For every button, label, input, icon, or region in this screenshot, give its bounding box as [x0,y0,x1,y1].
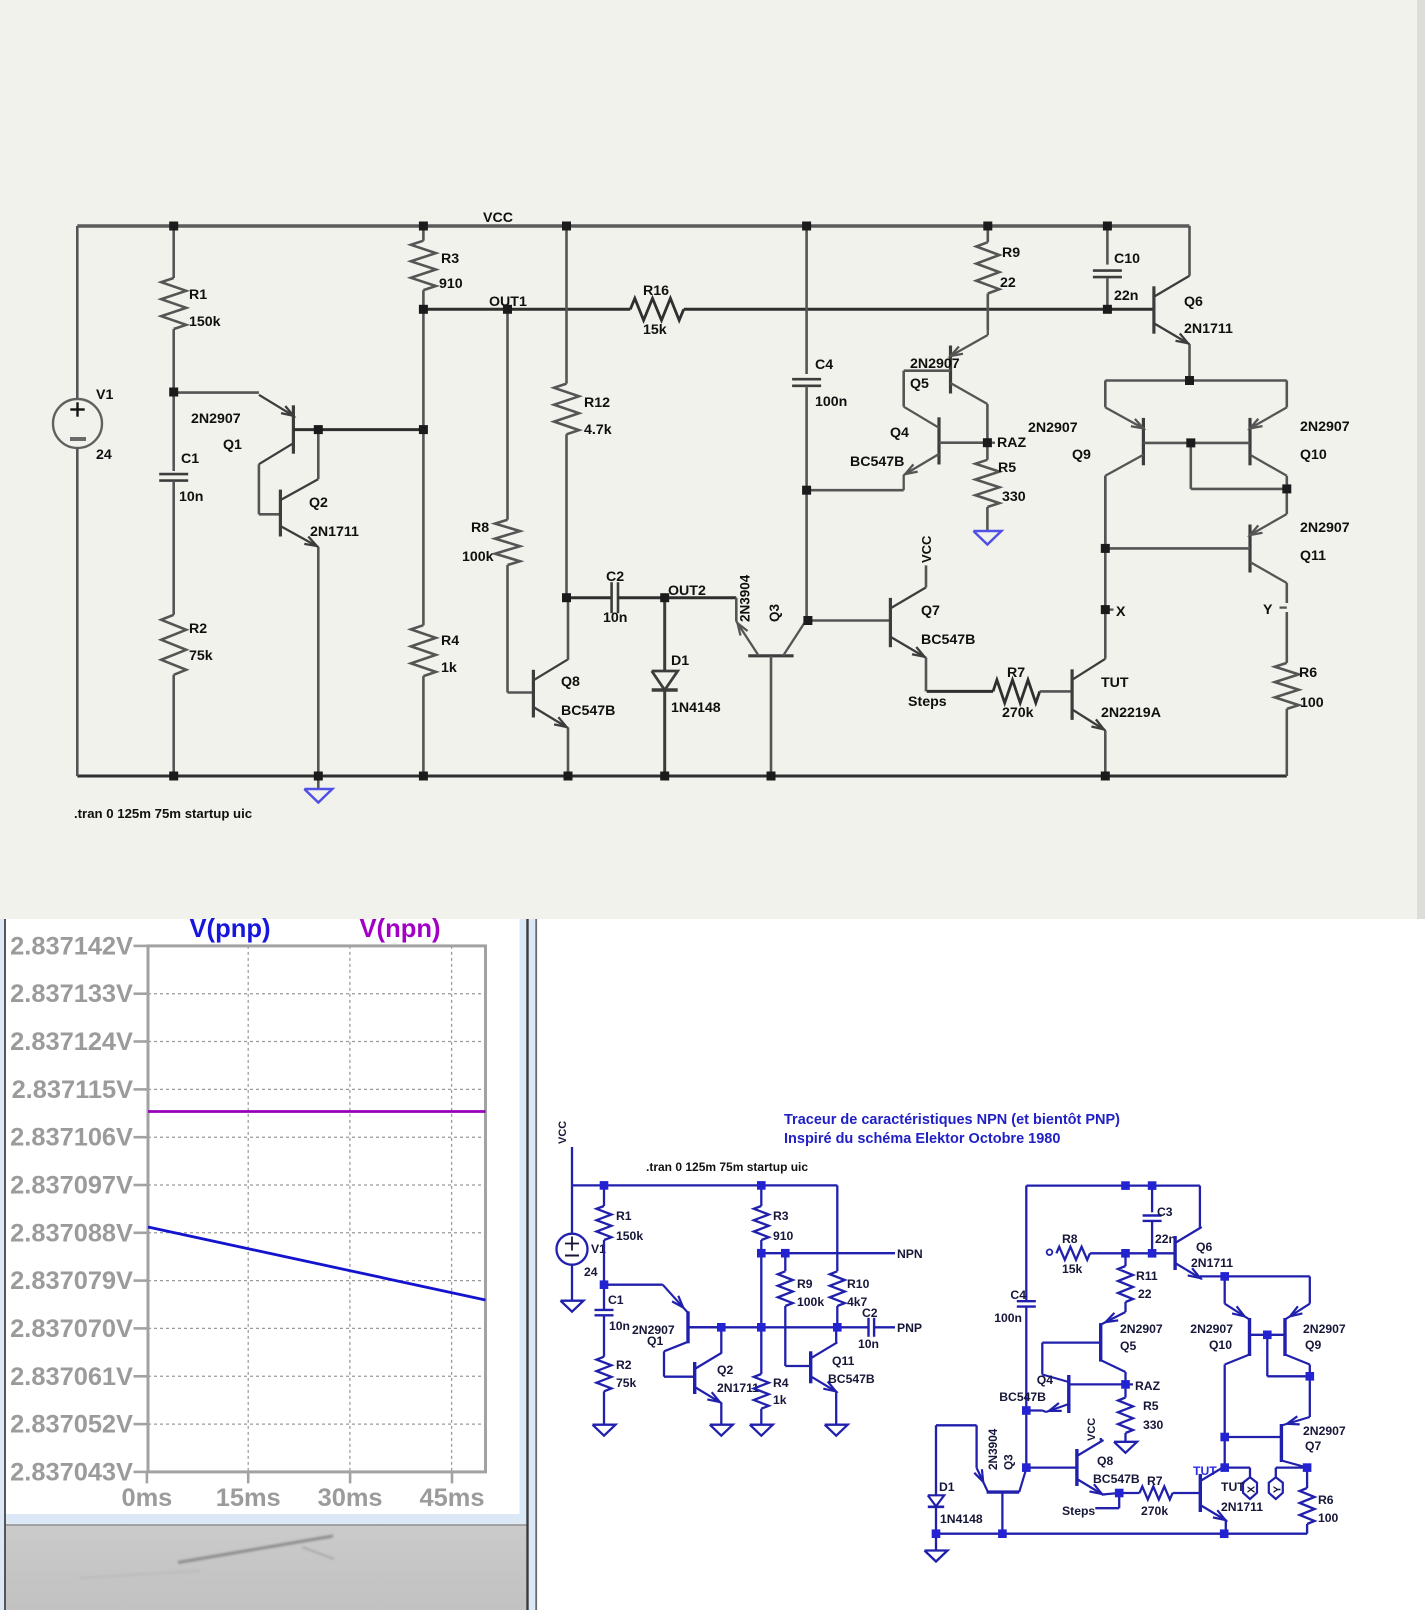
svg-text:100k: 100k [462,549,494,565]
svg-text:BC547B: BC547B [561,703,615,719]
svg-text:V1: V1 [96,387,113,403]
svg-text:BC547B: BC547B [850,454,904,470]
svg-text:4.7k: 4.7k [584,422,612,438]
svg-text:VCC: VCC [919,535,934,563]
svg-text:10n: 10n [609,1319,630,1333]
svg-text:Q9: Q9 [1072,447,1091,463]
svg-text:VCC: VCC [483,210,513,226]
svg-text:2.837133V: 2.837133V [10,980,133,1008]
svg-text:R7: R7 [1147,1474,1163,1488]
svg-text:330: 330 [1002,489,1026,505]
svg-text:Q7: Q7 [1305,1439,1321,1453]
svg-text:Q2: Q2 [717,1363,733,1377]
svg-text:24: 24 [584,1265,598,1279]
svg-text:150k: 150k [189,314,221,330]
svg-text:100: 100 [1318,1511,1339,1525]
svg-text:C1: C1 [608,1293,624,1307]
svg-text:R5: R5 [998,460,1016,476]
svg-text:10n: 10n [603,610,627,626]
svg-text:2.837115V: 2.837115V [12,1076,134,1104]
svg-text:100: 100 [1300,695,1324,711]
svg-text:10n: 10n [179,489,203,505]
svg-text:Q11: Q11 [1300,548,1326,564]
svg-text:1N4148: 1N4148 [671,700,721,716]
svg-text:1k: 1k [441,660,457,676]
svg-text:Steps: Steps [1062,1504,1095,1518]
svg-text:BC547B: BC547B [1093,1472,1140,1486]
svg-text:R1: R1 [189,287,207,303]
svg-text:2N2907: 2N2907 [1303,1322,1346,1336]
svg-text:22: 22 [1000,275,1016,291]
svg-text:R8: R8 [1062,1232,1078,1246]
svg-text:22: 22 [1138,1287,1152,1301]
svg-text:C4: C4 [1010,1288,1026,1302]
svg-text:Q7: Q7 [921,603,940,619]
svg-text:R2: R2 [616,1358,632,1372]
svg-text:Q2: Q2 [309,495,328,511]
svg-text:100n: 100n [994,1311,1022,1325]
svg-text:Q1: Q1 [223,437,242,453]
svg-text:R9: R9 [797,1277,813,1291]
svg-text:2N2907: 2N2907 [1300,419,1350,435]
svg-text:TUT: TUT [1101,675,1129,691]
svg-text:X: X [1116,604,1126,620]
svg-text:2N2907: 2N2907 [1300,520,1350,536]
svg-text:C4: C4 [815,357,833,373]
svg-text:TUT: TUT [1221,1480,1245,1494]
svg-text:1k: 1k [773,1393,787,1407]
svg-text:2N1711: 2N1711 [1221,1500,1263,1514]
svg-text:TUT: TUT [1193,1464,1217,1478]
svg-text:Q8: Q8 [1097,1454,1113,1468]
svg-text:2N1711: 2N1711 [310,524,359,540]
svg-text:45ms: 45ms [420,1484,485,1512]
svg-text:R4: R4 [773,1376,789,1390]
svg-text:Q11: Q11 [832,1354,855,1368]
svg-text:C2: C2 [606,569,624,585]
svg-text:V(pnp): V(pnp) [189,915,270,943]
svg-text:Q6: Q6 [1196,1240,1212,1254]
svg-text:2N1711: 2N1711 [1191,1256,1233,1270]
svg-text:RAZ: RAZ [997,435,1026,451]
svg-text:R6: R6 [1318,1493,1334,1507]
svg-text:Steps: Steps [908,694,947,710]
svg-text:R2: R2 [189,621,207,637]
svg-text:C1: C1 [181,451,199,467]
svg-text:Y: Y [1271,1486,1283,1493]
svg-text:30ms: 30ms [318,1484,383,1512]
svg-text:2.837097V: 2.837097V [10,1172,133,1200]
svg-text:2N3904: 2N3904 [986,1428,1000,1470]
svg-text:R1: R1 [616,1209,632,1223]
svg-text:2.837142V: 2.837142V [10,932,133,960]
svg-text:2.837088V: 2.837088V [10,1219,133,1247]
svg-text:Inspiré du schéma Elektor Octo: Inspiré du schéma Elektor Octobre 1980 [784,1131,1060,1147]
svg-text:.tran 0 125m 75m startup uic: .tran 0 125m 75m startup uic [646,1160,808,1174]
svg-text:R11: R11 [1136,1269,1158,1283]
svg-text:2N2907: 2N2907 [1120,1322,1163,1336]
svg-text:VCC: VCC [1086,1418,1098,1441]
svg-text:330: 330 [1143,1418,1164,1432]
svg-text:2N2219A: 2N2219A [1101,705,1161,721]
svg-text:BC547B: BC547B [921,632,975,648]
svg-text:1N4148: 1N4148 [940,1512,983,1526]
svg-text:910: 910 [439,276,463,292]
svg-text:BC547B: BC547B [999,1390,1046,1404]
svg-text:75k: 75k [189,648,213,664]
svg-text:2N2907: 2N2907 [1303,1424,1346,1438]
svg-text:2.837079V: 2.837079V [10,1267,133,1295]
svg-text:Q1: Q1 [647,1334,663,1348]
svg-text:PNP: PNP [897,1321,922,1335]
svg-text:10n: 10n [858,1337,879,1351]
svg-text:2N2907: 2N2907 [191,411,241,427]
svg-text:.tran 0 125m 75m startup uic: .tran 0 125m 75m startup uic [74,806,252,821]
svg-text:VCC: VCC [557,1121,569,1144]
svg-text:R5: R5 [1143,1399,1159,1413]
svg-text:100n: 100n [815,394,847,410]
svg-text:BC547B: BC547B [828,1372,875,1386]
svg-text:R12: R12 [584,395,610,411]
svg-text:2.837106V: 2.837106V [10,1124,133,1152]
svg-text:2.837124V: 2.837124V [10,1028,133,1056]
svg-text:Y: Y [1263,602,1273,618]
svg-text:Q5: Q5 [910,376,929,392]
svg-text:V(npn): V(npn) [359,915,440,943]
svg-text:NPN: NPN [897,1247,923,1261]
svg-text:Q3: Q3 [1001,1454,1015,1470]
svg-text:22n: 22n [1114,288,1138,304]
svg-text:2N2907: 2N2907 [1190,1322,1233,1336]
svg-text:Q5: Q5 [1120,1339,1136,1353]
svg-text:R10: R10 [847,1277,870,1291]
svg-text:2.837070V: 2.837070V [10,1315,133,1343]
svg-text:R9: R9 [1002,245,1020,261]
svg-text:OUT2: OUT2 [668,583,706,599]
svg-text:2N3904: 2N3904 [738,574,753,622]
svg-text:R3: R3 [441,251,459,267]
svg-text:Traceur de caractéristiques NP: Traceur de caractéristiques NPN (et bien… [784,1112,1120,1128]
svg-text:R3: R3 [773,1209,789,1223]
svg-text:75k: 75k [616,1376,637,1390]
svg-text:C3: C3 [1157,1205,1173,1219]
svg-text:Q4: Q4 [890,425,909,441]
svg-text:2N1711: 2N1711 [1184,321,1233,337]
svg-text:Q8: Q8 [561,674,580,690]
svg-text:15ms: 15ms [216,1484,281,1512]
svg-text:D1: D1 [939,1480,955,1494]
svg-text:270k: 270k [1002,705,1034,721]
svg-text:Q10: Q10 [1209,1338,1232,1352]
svg-text:22n: 22n [1155,1232,1176,1246]
svg-text:X: X [1246,1486,1258,1493]
svg-text:R8: R8 [471,520,489,536]
svg-text:24: 24 [96,447,112,463]
svg-text:D1: D1 [671,653,689,669]
svg-text:R16: R16 [643,283,669,299]
svg-text:910: 910 [773,1229,794,1243]
svg-text:2N2907: 2N2907 [1028,420,1078,436]
svg-text:Q9: Q9 [1305,1338,1321,1352]
svg-text:C10: C10 [1114,251,1140,267]
svg-text:2N2907: 2N2907 [910,356,960,372]
svg-text:270k: 270k [1141,1504,1168,1518]
svg-text:15k: 15k [1062,1262,1083,1276]
svg-text:Q10: Q10 [1300,447,1327,463]
svg-text:Q3: Q3 [767,603,782,622]
svg-text:R4: R4 [441,633,459,649]
svg-text:100k: 100k [797,1295,824,1309]
svg-text:2.837061V: 2.837061V [10,1363,133,1391]
svg-text:2.837052V: 2.837052V [10,1411,133,1439]
svg-text:2.837043V: 2.837043V [10,1458,133,1486]
svg-text:15k: 15k [643,322,667,338]
svg-text:Q4: Q4 [1037,1373,1053,1387]
svg-text:4k7: 4k7 [847,1295,868,1309]
svg-text:150k: 150k [616,1229,643,1243]
svg-text:Q6: Q6 [1184,294,1203,310]
svg-text:0ms: 0ms [121,1484,172,1512]
svg-text:R6: R6 [1299,665,1317,681]
svg-text:RAZ: RAZ [1135,1379,1161,1393]
svg-text:R7: R7 [1007,665,1025,681]
